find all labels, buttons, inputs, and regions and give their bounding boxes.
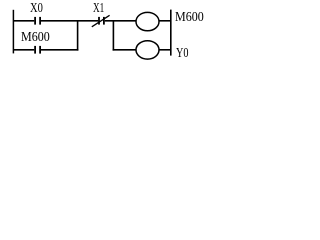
wire: X0 to contact X1 (top rung): [41, 20, 98, 22]
slash of NC contact X1: [92, 15, 110, 26]
junction: coil branch split vertical: [112, 20, 114, 50]
label X1: [93, 2, 104, 16]
label Y0 (coil operand): [176, 47, 189, 61]
wire: left rail to contact X0: [13, 20, 34, 22]
bottom branch wire: left rail to contact M600: [13, 49, 34, 51]
label M600 (coil operand): [175, 11, 204, 25]
wire: coil split to coil Y0: [113, 49, 137, 51]
wire: coil M600 to right rail: [159, 20, 170, 22]
contact M600 (normally open): [35, 46, 40, 54]
coil Y0 (ellipse): [136, 41, 159, 59]
wire: coil Y0 to right rail: [159, 49, 170, 51]
wire: contact M600 to rejoin junction: [41, 49, 78, 51]
contact X1 (normally closed): [99, 17, 104, 25]
left power rail: [12, 10, 14, 54]
coil M600 (ellipse): [136, 12, 159, 30]
label X0: [30, 2, 43, 16]
wire: X1 to coil branch split: [105, 20, 137, 22]
label M600 (contact operand): [21, 31, 50, 45]
right power rail: [170, 10, 172, 56]
junction: parallel branch rejoin vertical: [77, 20, 79, 50]
contact X0 (normally open): [35, 17, 40, 25]
